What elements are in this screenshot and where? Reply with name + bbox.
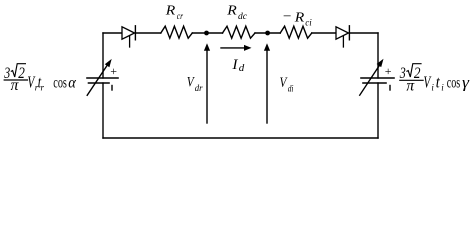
svg-text:−: − — [283, 9, 292, 24]
svg-text:+: + — [385, 64, 392, 78]
svg-text:π: π — [11, 77, 20, 94]
svg-text:i: i — [441, 83, 444, 93]
svg-text:3: 3 — [3, 65, 10, 82]
svg-text:2: 2 — [414, 65, 421, 82]
svg-text:ci: ci — [305, 18, 312, 28]
svg-text:γ: γ — [462, 74, 470, 91]
svg-text:+: + — [110, 64, 117, 78]
svg-text:cos: cos — [53, 74, 67, 91]
svg-text:d: d — [239, 62, 245, 74]
svg-text:3: 3 — [399, 65, 406, 82]
svg-text:r: r — [41, 82, 45, 92]
svg-text:dr: dr — [195, 83, 203, 93]
svg-text:di: di — [288, 83, 294, 93]
svg-text:2: 2 — [18, 65, 25, 82]
svg-text:cos: cos — [447, 74, 460, 91]
svg-text:R: R — [165, 4, 176, 19]
svg-text:cr: cr — [177, 11, 184, 21]
svg-text:i: i — [431, 83, 434, 93]
svg-text:α: α — [68, 74, 76, 91]
svg-text:R: R — [294, 10, 305, 25]
svg-text:t: t — [436, 72, 441, 91]
svg-text:π: π — [406, 77, 415, 94]
svg-text:R: R — [226, 4, 237, 19]
svg-text:dc: dc — [238, 11, 247, 21]
